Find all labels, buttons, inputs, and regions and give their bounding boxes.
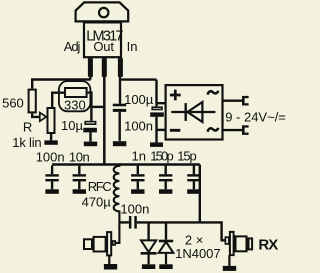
- svg-text:RFC: RFC: [88, 179, 112, 194]
- svg-text:1n: 1n: [132, 148, 146, 163]
- svg-text:100n: 100n: [124, 118, 153, 133]
- svg-text:560: 560: [2, 96, 24, 111]
- svg-text:330: 330: [64, 97, 86, 112]
- svg-text:Adj: Adj: [64, 39, 81, 54]
- svg-text:470µ: 470µ: [82, 195, 112, 210]
- svg-text:In: In: [127, 39, 138, 54]
- svg-text:100n: 100n: [120, 201, 149, 216]
- svg-text:1k lin: 1k lin: [12, 135, 41, 150]
- svg-text:15p: 15p: [177, 148, 196, 163]
- svg-text:10n: 10n: [69, 149, 90, 164]
- svg-text:100µ: 100µ: [124, 92, 154, 107]
- svg-text:10µ: 10µ: [61, 118, 83, 133]
- svg-text:100n: 100n: [36, 149, 65, 164]
- svg-text:RX: RX: [258, 237, 278, 254]
- svg-text:1N4007: 1N4007: [175, 246, 221, 261]
- svg-text:R: R: [23, 119, 32, 134]
- svg-text:9 - 24V~/=: 9 - 24V~/=: [225, 109, 286, 124]
- svg-text:150p: 150p: [150, 148, 173, 163]
- svg-text:Out: Out: [93, 39, 114, 54]
